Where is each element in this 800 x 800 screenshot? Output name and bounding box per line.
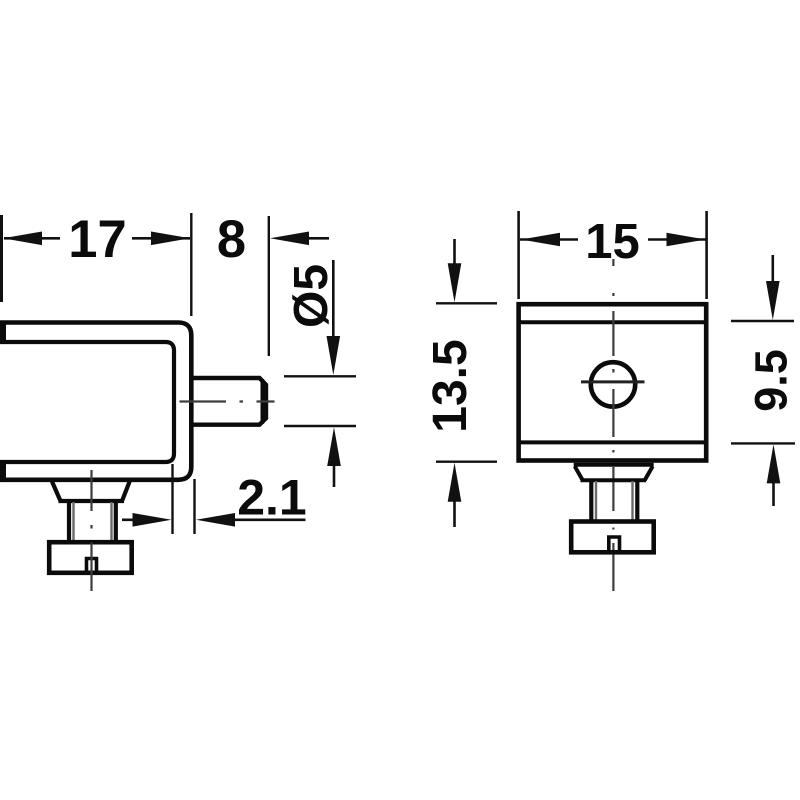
dimension 9.5 top arrowhead <box>766 281 780 320</box>
screw head slot (right view) <box>609 537 620 552</box>
dimension 2.1 left extension line <box>171 464 173 534</box>
dimension 17 left arrowhead <box>3 232 42 246</box>
circle horizontal centerline <box>581 380 645 383</box>
extension line between 17 and 8 <box>190 213 192 316</box>
svg-text:Ø5: Ø5 <box>285 264 338 328</box>
dimension 2.1 left arrowhead <box>133 513 172 527</box>
front plate outline (right view) <box>519 304 707 460</box>
pin end circle (right view) <box>591 362 635 406</box>
diameter 5 upper arrow tail <box>332 260 335 340</box>
svg-text:15: 15 <box>585 215 640 269</box>
dimension 2.1 right arrowhead <box>196 513 235 527</box>
dimension 15 right arrowhead <box>667 233 706 247</box>
diameter 5 upper arrowhead <box>327 336 341 375</box>
dimension 15 right extension line <box>705 211 708 299</box>
clamp body outer outline (left view) <box>0 323 191 480</box>
screw stem outer edges (left view) <box>67 501 71 542</box>
screw stem outer edges (right view) <box>589 480 593 521</box>
dimension 2.1 left arrow tail <box>122 518 140 521</box>
screw head (left view) <box>49 542 132 573</box>
dimension 9.5 top extension line <box>731 320 794 322</box>
screw neck trapezoid (right view) <box>574 465 654 480</box>
dimension 2.1 right arrow tail <box>232 518 306 521</box>
screw axis centerline (left view) <box>90 470 92 591</box>
pin centerline <box>180 400 275 402</box>
screw neck bottom line (right view) <box>581 478 647 482</box>
dimension 13.5 top arrowhead <box>448 263 462 302</box>
front plate bottom fold line <box>519 440 706 444</box>
diameter 5 lower extension line <box>284 425 356 427</box>
screw head slot (left view) <box>87 559 97 573</box>
dimension 13.5 bottom extension line <box>436 461 497 463</box>
clamp body inner outline (left view) <box>0 342 174 462</box>
dimension 13.5 bottom arrowhead <box>448 463 462 502</box>
dimension 13.5 bottom arrow tail <box>453 498 456 527</box>
dimension 15 line right segment <box>648 238 706 241</box>
dimension 15 left extension line <box>517 211 520 299</box>
clamp bottom arm end cap <box>0 460 6 482</box>
dimension 13.5 top arrow tail <box>453 239 456 268</box>
dimension 17 line right segment <box>132 237 190 240</box>
diameter 5 lower arrow tail <box>333 462 336 487</box>
pin chamfer line <box>260 379 264 424</box>
svg-text:9.5: 9.5 <box>746 349 797 412</box>
screw thread root lines (left view) <box>72 502 74 541</box>
svg-text:8: 8 <box>217 210 246 269</box>
screw thread root lines (right view) <box>595 481 597 521</box>
diameter 5 lower arrowhead <box>327 427 341 466</box>
svg-text:2.1: 2.1 <box>237 470 307 526</box>
dimension 8 right outside tail <box>306 237 329 240</box>
dimension 9.5 bottom arrow tail <box>772 480 775 506</box>
dimension 2.1 right extension line <box>193 479 195 534</box>
dimension 15 line left segment <box>520 238 578 241</box>
dimension 9.5 bottom extension line <box>731 442 795 444</box>
dimension 8 right outside arrowhead <box>270 232 309 246</box>
vertical centerline (right view) <box>612 259 614 591</box>
extension line right of 8 <box>268 216 270 356</box>
pin (left view) <box>192 378 266 425</box>
dimension 13.5 top extension line <box>436 302 497 304</box>
dimension 9.5 top arrow tail <box>771 255 774 285</box>
svg-text:13.5: 13.5 <box>424 339 477 432</box>
svg-text:17: 17 <box>68 210 126 269</box>
dimension 17 line left segment <box>4 237 60 240</box>
front plate top fold line <box>519 320 706 324</box>
dimension 17 right arrowhead <box>151 232 190 246</box>
screw neck bottom line <box>59 499 125 503</box>
dimension 15 left arrowhead <box>521 233 560 247</box>
dimension 9.5 bottom arrowhead <box>767 444 781 483</box>
screw neck trapezoid (left view) <box>52 482 130 502</box>
screw head (right view) <box>571 522 654 553</box>
extension line left of 17 <box>0 215 3 302</box>
diameter 5 upper extension line <box>284 375 356 377</box>
clamp top arm end cap <box>0 321 6 345</box>
